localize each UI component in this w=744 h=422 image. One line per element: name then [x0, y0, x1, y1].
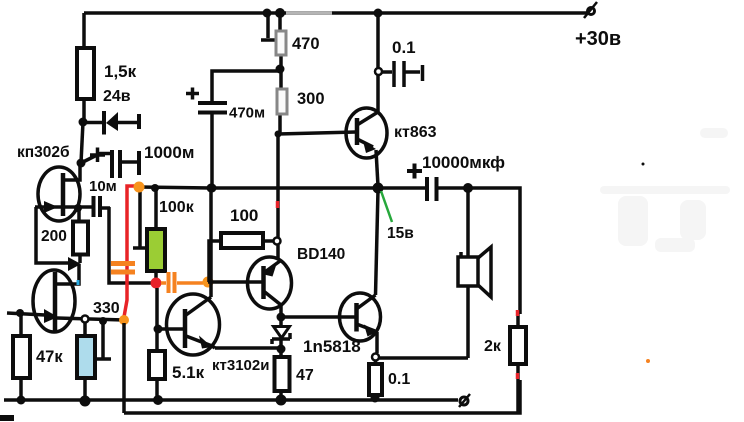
node top rail 267 — [263, 9, 272, 18]
node speaker junction — [463, 183, 473, 193]
svg-text:100: 100 — [230, 206, 258, 225]
capacitor C 470м — [198, 71, 280, 187]
wire ground rail 1 — [4, 398, 458, 402]
wire gate line left — [7, 313, 45, 315]
mark bottom-left — [0, 415, 14, 421]
node orange 330 — [119, 315, 129, 325]
node source/200 junction — [74, 204, 82, 212]
resistor R 47к — [13, 313, 30, 400]
node orange mid rail — [134, 182, 145, 193]
svg-text:1000м: 1000м — [144, 143, 194, 162]
svg-text:кт3102и: кт3102и — [212, 357, 269, 374]
green 15v pointer — [381, 191, 392, 222]
resistor R 47 — [275, 349, 290, 400]
svg-text:10м: 10м — [89, 178, 117, 195]
wire source loop left — [36, 207, 70, 263]
wire mid rail (15v row) — [139, 187, 378, 188]
resistor R 300 — [277, 89, 287, 114]
wire top +30v rail — [84, 11, 588, 15]
node diode anode junction — [79, 118, 88, 127]
potentiometer (blue) — [77, 321, 111, 401]
resistor R 0.1 (emitter) — [369, 360, 382, 398]
capacitor C 10м — [94, 196, 111, 217]
node 1000m junction — [77, 159, 86, 168]
wire kt863 base — [278, 132, 356, 134]
node 470/300 junction — [276, 65, 285, 74]
wire vertical 470/300/emitter column — [278, 13, 281, 260]
terminal output gnd — [459, 394, 470, 407]
node wiper junction — [99, 317, 107, 325]
node gnd 0.1 — [371, 394, 380, 403]
capacitor C 10000мкф — [378, 177, 468, 201]
arrow into junction — [68, 257, 81, 271]
resistor R 5.1к — [149, 351, 165, 400]
svg-text:47к: 47к — [36, 348, 63, 366]
diode VD1 (24в) — [83, 111, 139, 135]
node diode bottom — [277, 345, 286, 354]
node gate/47k junction — [16, 309, 24, 317]
resistor R 100к (green) — [147, 188, 165, 280]
wire below orange node to bottom rail2 — [122, 323, 126, 413]
node ring 100/emitter line — [274, 238, 281, 245]
wire to 2k column — [468, 188, 520, 314]
svg-text:0.1: 0.1 — [388, 371, 410, 388]
wire base node to BD140 — [208, 280, 262, 284]
wire to output transistor base — [281, 315, 356, 319]
svg-text:15в: 15в — [387, 225, 414, 242]
svg-text:24в: 24в — [103, 88, 131, 105]
node gnd 47k — [17, 396, 26, 405]
mark small dot — [642, 163, 645, 166]
svg-text:1n5818: 1n5818 — [303, 337, 361, 356]
terminal +30в — [584, 2, 597, 18]
svg-text:470м: 470м — [229, 105, 265, 122]
node 470m bottom — [208, 184, 217, 193]
svg-text:2к: 2к — [484, 338, 502, 355]
wire bottom rail 2 — [124, 380, 520, 413]
wire junction down to JFET2 drain — [57, 264, 79, 284]
wire base node up to 100 — [209, 241, 221, 282]
diode 1n5818 — [272, 317, 290, 349]
svg-text:47: 47 — [296, 367, 314, 384]
node kt3102 base — [154, 325, 163, 334]
node 15v — [373, 183, 384, 194]
wire red line — [124, 186, 139, 317]
blue tick mark — [77, 280, 80, 285]
node gnd pot — [80, 396, 91, 407]
mark orange fleck — [646, 359, 650, 363]
label + 10000 — [407, 164, 422, 179]
resistor 1,5к — [77, 48, 94, 99]
faint ghost marks — [600, 128, 730, 252]
svg-text:BD140: BD140 — [297, 246, 345, 263]
transistor кт3102и — [159, 188, 220, 355]
wire to 330/red node — [57, 318, 124, 320]
svg-text:1,5к: 1,5к — [104, 62, 137, 81]
label + 470m — [186, 88, 199, 100]
label + 1000m — [90, 148, 105, 163]
svg-text:+30в: +30в — [575, 28, 621, 50]
svg-text:10000мкф: 10000мкф — [422, 153, 505, 172]
node BD140 collector — [277, 313, 286, 322]
node ring kt863 collector / 0.1 cap — [375, 68, 382, 75]
node red signal — [151, 278, 162, 289]
wire emitter to speaker return — [378, 286, 468, 358]
wire left drop to R 1,5k — [82, 13, 86, 48]
wire kt3102 emitter — [215, 346, 278, 350]
wire speaker top feed — [466, 188, 470, 257]
stub with tee at top — [261, 13, 276, 40]
node gnd 47 — [276, 395, 287, 406]
wire red node down to 5.1k — [155, 288, 159, 351]
node top rail kt863 — [374, 9, 383, 18]
svg-text:0.1: 0.1 — [392, 38, 416, 57]
node 100k top — [151, 184, 159, 192]
resistor R 2к — [510, 310, 526, 413]
wire gray faded segment of top rail — [286, 11, 332, 15]
svg-text:5.1к: 5.1к — [172, 363, 205, 382]
svg-text:470: 470 — [292, 35, 320, 53]
resistor R 200 — [73, 208, 88, 263]
node top rail 280 — [275, 8, 285, 18]
capacitor C 1000м — [81, 150, 139, 178]
node ring pot top — [82, 316, 89, 323]
stub from orange node down — [133, 187, 146, 248]
transistor BD140 — [248, 257, 292, 317]
node gnd 5.1k — [153, 395, 163, 405]
capacitor orange plates — [111, 264, 135, 273]
svg-text:300: 300 — [297, 90, 325, 108]
svg-text:330: 330 — [93, 300, 120, 317]
resistor R 100 — [221, 233, 273, 248]
wire 10m down to signal node — [109, 207, 152, 283]
red tick on column — [276, 201, 280, 208]
capacitor C 0.1 (top) — [382, 61, 423, 87]
transistor кт863 — [346, 13, 387, 186]
node collector kt3102 top — [207, 184, 216, 193]
speaker LS1 — [458, 247, 491, 297]
wire node to 1000m node — [81, 122, 83, 163]
svg-text:200: 200 — [41, 228, 67, 245]
node ring emitter — [372, 354, 379, 361]
transistor output (NPN) — [340, 190, 381, 353]
svg-text:кп302б: кп302б — [17, 144, 70, 161]
svg-text:кт863: кт863 — [394, 124, 437, 141]
transistor JFET2 — [33, 270, 75, 332]
wire 1,5k to diode node — [82, 99, 86, 122]
node 300 bottom / kt863 base — [275, 131, 282, 138]
capacitor orange coupling — [161, 272, 203, 293]
resistor R 470 — [276, 31, 286, 55]
node orange BD140 base — [203, 277, 214, 288]
svg-text:100к: 100к — [159, 199, 195, 216]
transistor кп302б (JFET) — [35, 164, 92, 221]
